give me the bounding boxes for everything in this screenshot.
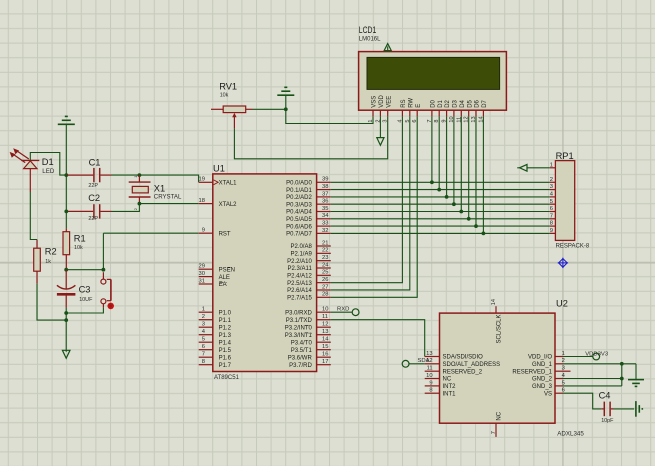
svg-text:P2.6/A14: P2.6/A14 xyxy=(287,288,312,294)
svg-text:RW: RW xyxy=(408,98,414,108)
svg-text:RP1: RP1 xyxy=(556,151,574,161)
wire U1 P0.4 to RP1 pin 6 xyxy=(331,211,550,213)
svg-text:34: 34 xyxy=(322,213,329,219)
svg-text:P1.6: P1.6 xyxy=(219,355,232,361)
svg-text:LED: LED xyxy=(42,168,55,175)
svg-text:15: 15 xyxy=(322,344,328,350)
svg-text:RV1: RV1 xyxy=(219,81,237,91)
wire VCC column from ground to D1/C1 node xyxy=(65,125,67,175)
potentiometer RV1 10k xyxy=(211,81,253,128)
svg-text:GND_2: GND_2 xyxy=(532,377,553,383)
LCD LCD1 LM016L xyxy=(359,25,507,110)
wire LCD D0 down to P0.0 row xyxy=(431,117,433,183)
svg-text:26: 26 xyxy=(322,277,328,283)
junction D5/P0.5 xyxy=(467,217,471,221)
svg-text:35: 35 xyxy=(322,206,328,212)
svg-text:16: 16 xyxy=(322,352,328,358)
U2 left pin numbers xyxy=(426,351,432,394)
svg-text:C2: C2 xyxy=(88,193,100,203)
ground symbol (rotated) right of C4 xyxy=(636,401,642,417)
svg-text:30: 30 xyxy=(199,271,205,277)
wire LCD D6 down to P0.6 row xyxy=(475,117,477,227)
svg-text:P0.1/AD1: P0.1/AD1 xyxy=(286,188,312,194)
svg-text:36: 36 xyxy=(322,199,328,205)
svg-text:RESERVED_1: RESERVED_1 xyxy=(512,369,552,375)
wire U2 GND_1 to ground xyxy=(563,364,636,380)
input arrow terminal on RP1 pin 1 xyxy=(517,164,550,171)
svg-text:SDO/ALT_ADDRESS: SDO/ALT_ADDRESS xyxy=(443,362,501,368)
junction D4/P0.4 xyxy=(459,210,463,214)
svg-text:EA: EA xyxy=(219,282,227,288)
wire R2 bottom to ground column xyxy=(37,284,66,321)
svg-text:5: 5 xyxy=(202,337,205,343)
svg-text:ALE: ALE xyxy=(219,275,230,281)
svg-text:P0.7/AD7: P0.7/AD7 xyxy=(286,232,312,238)
svg-text:P1.4: P1.4 xyxy=(219,340,232,346)
svg-text:VDD_I/O: VDD_I/O xyxy=(528,355,552,361)
wire LCD D3 down to P0.3 row xyxy=(453,117,455,205)
svg-text:P1.1: P1.1 xyxy=(219,318,232,324)
svg-text:VDD: VDD xyxy=(379,94,385,107)
push button (reset) xyxy=(101,272,111,307)
RP1 pin numbers 1-9 xyxy=(550,162,554,234)
svg-text:D4: D4 xyxy=(460,99,466,107)
junction D0/P0.0 xyxy=(430,180,434,184)
junction D3/P0.3 xyxy=(452,202,456,206)
junction C2 left on VCC column xyxy=(64,210,68,214)
svg-text:P1.7: P1.7 xyxy=(219,363,232,369)
svg-text:25: 25 xyxy=(322,270,328,276)
svg-text:P2.3/A11: P2.3/A11 xyxy=(288,266,313,272)
svg-text:P3.4/T0: P3.4/T0 xyxy=(291,340,313,346)
svg-text:XTAL2: XTAL2 xyxy=(219,202,238,208)
ground (inverted) top-left xyxy=(58,116,75,124)
svg-text:E: E xyxy=(416,104,422,108)
svg-text:39: 39 xyxy=(322,177,328,183)
svg-text:D1: D1 xyxy=(42,157,54,167)
svg-text:11: 11 xyxy=(427,366,433,372)
svg-text:9: 9 xyxy=(202,228,205,234)
U1 right pin labels xyxy=(285,181,313,369)
svg-text:RS: RS xyxy=(401,99,407,107)
ground symbol right of U2 xyxy=(628,380,644,387)
U2 top pin 14 SCL/SCLK xyxy=(491,299,502,344)
wire U1 P0.3 to RP1 pin 5 xyxy=(331,203,550,205)
svg-text:P0.4/AD4: P0.4/AD4 xyxy=(286,210,312,216)
terminal RXD on U1 P3.0 xyxy=(331,306,359,315)
capacitor C4 10pF xyxy=(599,391,615,424)
wire C2 right to X1 bottom node xyxy=(112,204,140,211)
svg-text:P3.7/RD: P3.7/RD xyxy=(289,363,312,369)
wire U1 P0.7 to RP1 pin 9 xyxy=(331,232,550,234)
wire LCD D5 down to P0.5 row xyxy=(468,117,470,219)
svg-text:LCD1: LCD1 xyxy=(359,25,377,35)
svg-text:10UF: 10UF xyxy=(79,297,93,303)
terminal VDD3V3 on U2 pin 1 xyxy=(563,351,609,360)
svg-text:ADXL345: ADXL345 xyxy=(557,430,584,437)
RP1 pin stubs xyxy=(550,168,556,234)
svg-text:RST: RST xyxy=(219,231,231,237)
crystal X1 xyxy=(129,175,182,211)
svg-text:R2: R2 xyxy=(45,247,57,257)
ground arrow bottom-left xyxy=(62,350,70,358)
svg-text:VS: VS xyxy=(544,391,552,397)
resistor R1 10k xyxy=(63,229,86,270)
LCD pin numbers 1-14 xyxy=(368,116,484,122)
node A junction (D1/C1/VCC column) xyxy=(64,173,68,177)
wire LCD D2 down to P0.2 row xyxy=(446,117,448,197)
wire D1 anode down to R2 xyxy=(30,192,37,240)
junction X1 bottom xyxy=(138,202,142,206)
wire U1 P0.1 to RP1 pin 3 xyxy=(331,189,550,191)
wire button bottom to ground column xyxy=(66,308,103,313)
svg-text:31: 31 xyxy=(199,278,205,284)
wire VCC column (node A to R1) xyxy=(65,175,67,229)
svg-text:P2.2/A10: P2.2/A10 xyxy=(287,259,312,265)
svg-text:P0.3/AD3: P0.3/AD3 xyxy=(286,202,312,208)
svg-text:1: 1 xyxy=(202,307,205,313)
svg-text:P1.3: P1.3 xyxy=(219,333,232,339)
IC U1 AT89C51 body xyxy=(213,163,317,381)
svg-text:5: 5 xyxy=(550,199,553,205)
svg-text:8: 8 xyxy=(429,388,432,394)
resistor pack RP1 RESPACK-8 xyxy=(555,151,589,250)
wire RST to U1 pin 9 xyxy=(103,232,198,234)
svg-text:7: 7 xyxy=(491,431,497,434)
wire LCD RS to U1 P2.5 xyxy=(331,117,403,283)
svg-text:PSEN: PSEN xyxy=(219,267,235,273)
svg-text:U2: U2 xyxy=(556,298,568,308)
svg-text:6: 6 xyxy=(202,344,205,350)
svg-text:NC: NC xyxy=(443,377,452,383)
wire U1 P0.2 to RP1 pin 4 xyxy=(331,196,550,198)
svg-text:17: 17 xyxy=(322,359,328,365)
svg-text:RESERVED_2: RESERVED_2 xyxy=(443,369,483,375)
svg-text:P0.6/AD6: P0.6/AD6 xyxy=(286,224,312,230)
svg-text:3: 3 xyxy=(383,119,389,122)
svg-text:D5: D5 xyxy=(467,99,473,107)
svg-text:22P: 22P xyxy=(88,183,98,189)
svg-text:2: 2 xyxy=(550,177,553,183)
svg-text:P2.1/A9: P2.1/A9 xyxy=(290,252,312,258)
svg-text:10k: 10k xyxy=(220,93,229,99)
capacitor C1 22P xyxy=(67,158,112,190)
svg-text:P1.5: P1.5 xyxy=(219,348,232,354)
svg-text:P1.0: P1.0 xyxy=(219,310,232,316)
svg-text:32: 32 xyxy=(322,228,328,234)
svg-text:3: 3 xyxy=(202,322,205,328)
svg-text:P1.2: P1.2 xyxy=(219,325,232,331)
svg-text:P2.4/A12: P2.4/A12 xyxy=(287,274,312,280)
svg-text:VDD3V3: VDD3V3 xyxy=(585,351,609,357)
svg-text:D1: D1 xyxy=(438,99,444,107)
capacitor C2 22P xyxy=(67,193,112,222)
junction RV1/ground/VSS xyxy=(284,107,288,111)
svg-text:P3.5/T1: P3.5/T1 xyxy=(291,348,313,354)
svg-text:23: 23 xyxy=(322,255,328,261)
button red actuator dot xyxy=(107,303,114,310)
svg-text:29: 29 xyxy=(199,264,205,270)
svg-text:38: 38 xyxy=(322,184,328,190)
svg-text:VSS: VSS xyxy=(372,96,378,108)
U2 bottom pin 7 xyxy=(491,411,502,437)
svg-text:7: 7 xyxy=(202,352,205,358)
svg-text:P3.2/INT0: P3.2/INT0 xyxy=(285,325,313,331)
svg-text:6: 6 xyxy=(550,206,553,212)
svg-text:NC: NC xyxy=(496,411,502,420)
U2 right pin numbers xyxy=(562,351,566,394)
svg-text:D6: D6 xyxy=(475,99,481,107)
svg-text:D0: D0 xyxy=(431,99,437,107)
svg-text:10: 10 xyxy=(426,373,432,379)
wire U1 P0.5 to RP1 pin 7 xyxy=(331,218,550,220)
svg-text:9: 9 xyxy=(550,228,553,234)
svg-text:U1: U1 xyxy=(213,163,225,173)
svg-text:1k: 1k xyxy=(45,259,51,265)
svg-text:CRYSTAL: CRYSTAL xyxy=(154,193,182,200)
svg-text:2: 2 xyxy=(202,314,205,320)
svg-text:LM016L: LM016L xyxy=(359,36,381,42)
svg-text:21: 21 xyxy=(322,240,328,246)
svg-text:P3.0/RXD: P3.0/RXD xyxy=(285,310,312,316)
svg-text:11: 11 xyxy=(322,314,328,320)
svg-text:33: 33 xyxy=(322,221,328,227)
wire RST column xyxy=(102,233,104,270)
wire U2 GND_2 xyxy=(563,378,622,380)
wire U1 P0.0 to RP1 pin 2 xyxy=(331,181,550,183)
svg-text:D2: D2 xyxy=(445,99,451,107)
wire RV1 right to ground node xyxy=(253,108,286,110)
wire ground node to LCD VSS xyxy=(286,109,373,123)
svg-text:P2.0/A8: P2.0/A8 xyxy=(290,244,312,250)
U2 right pin labels xyxy=(512,355,552,398)
junction R2 bottom node xyxy=(64,318,68,322)
svg-text:SCL/SCLK: SCL/SCLK xyxy=(496,314,502,343)
junction D1/P0.1 xyxy=(437,188,441,192)
terminal SDA on U2 pin 12 xyxy=(402,358,429,367)
svg-text:P3.1/TXD: P3.1/TXD xyxy=(286,318,313,324)
svg-text:C1: C1 xyxy=(89,158,101,168)
wire C3 bottom / ground column down xyxy=(65,308,67,352)
diode D1 (LED) xyxy=(10,148,55,192)
U2 left pin labels xyxy=(443,355,501,398)
svg-text:10: 10 xyxy=(322,307,328,313)
svg-text:RESPACK-8: RESPACK-8 xyxy=(556,243,590,249)
svg-text:9: 9 xyxy=(429,380,432,386)
power arrow terminal above LCD xyxy=(384,44,391,52)
svg-text:C3: C3 xyxy=(79,285,91,295)
svg-text:SDA/SDI/SDIO: SDA/SDI/SDIO xyxy=(443,355,484,361)
svg-text:D3: D3 xyxy=(453,99,459,107)
svg-text:8: 8 xyxy=(202,359,205,365)
wire U1 P3.1/TXD to U2 pin13 xyxy=(331,320,425,357)
wire LCD RW to U1 P2.6 xyxy=(331,117,410,290)
svg-text:R1: R1 xyxy=(74,234,86,244)
svg-text:12: 12 xyxy=(322,322,328,328)
wire C4 to side ground xyxy=(614,408,635,410)
svg-text:10k: 10k xyxy=(74,245,83,251)
junction R1 bottom / RST node xyxy=(64,268,105,272)
wire LCD E to U1 P2.7 xyxy=(331,117,417,298)
svg-text:SDA: SDA xyxy=(418,358,430,364)
junction D7/P0.7 xyxy=(482,232,486,236)
U2 right pin stubs xyxy=(555,357,571,394)
LCD pin stubs xyxy=(373,110,483,116)
IC U2 ADXL345 body xyxy=(440,298,585,437)
svg-text:INT2: INT2 xyxy=(443,384,457,390)
svg-text:X1: X1 xyxy=(154,183,165,193)
wire LCD D1 down to P0.1 row xyxy=(438,117,440,190)
sheet origin marker xyxy=(558,258,568,268)
svg-text:C4: C4 xyxy=(599,391,611,401)
junction GND_1 column xyxy=(620,362,624,381)
wire R1 bottom to button column xyxy=(66,269,103,271)
svg-text:37: 37 xyxy=(322,191,328,197)
svg-text:10pF: 10pF xyxy=(601,418,614,424)
junction X1 top xyxy=(138,173,142,177)
power-down arrow terminal under LCD VDD pin 2 xyxy=(377,117,384,146)
wire U2 VS to C4 xyxy=(563,393,601,409)
svg-text:18: 18 xyxy=(199,198,205,204)
svg-text:1: 1 xyxy=(550,162,553,168)
svg-text:14: 14 xyxy=(491,299,497,305)
svg-text:P3.3/INT1: P3.3/INT1 xyxy=(285,333,313,339)
capacitor C3 10UF xyxy=(57,270,93,308)
svg-text:3: 3 xyxy=(550,184,553,190)
svg-text:19: 19 xyxy=(199,177,205,183)
svg-text:P0.0/AD0: P0.0/AD0 xyxy=(286,181,312,187)
resistor R2 1k xyxy=(34,240,57,284)
svg-text:XTAL1: XTAL1 xyxy=(219,181,238,187)
svg-text:P0.2/AD2: P0.2/AD2 xyxy=(286,195,312,201)
svg-text:INT1: INT1 xyxy=(443,391,457,397)
junction D2/P0.2 xyxy=(445,195,449,199)
wire D1 cathode to node A xyxy=(30,153,66,176)
svg-text:22: 22 xyxy=(322,248,328,254)
svg-text:P3.6/WR: P3.6/WR xyxy=(288,355,313,361)
svg-text:28: 28 xyxy=(322,292,328,298)
ground (inverted) above RV1 node xyxy=(277,87,294,109)
svg-text:GND_3: GND_3 xyxy=(532,384,553,390)
svg-text:14: 14 xyxy=(322,337,329,343)
U1 left pin stubs xyxy=(199,182,213,364)
svg-text:1: 1 xyxy=(368,119,374,122)
svg-text:P2.7/A15: P2.7/A15 xyxy=(287,296,312,302)
svg-text:8: 8 xyxy=(550,221,553,227)
wire X1 bottom / C2 to XTAL2 xyxy=(139,203,198,205)
svg-text:GND_1: GND_1 xyxy=(532,362,553,368)
svg-text:24: 24 xyxy=(322,262,329,268)
svg-text:22P: 22P xyxy=(88,216,98,222)
svg-text:D7: D7 xyxy=(482,99,488,107)
svg-text:13: 13 xyxy=(426,351,432,357)
U1 right pin stubs xyxy=(317,182,331,364)
svg-text:7: 7 xyxy=(550,213,553,219)
wire C1 to XTAL1 xyxy=(112,175,199,182)
svg-text:VEE: VEE xyxy=(386,96,392,108)
U1 left pin labels xyxy=(219,181,238,369)
svg-text:AT89C51: AT89C51 xyxy=(214,375,240,381)
wire RV1 wiper to LCD VEE xyxy=(234,117,387,159)
svg-text:27: 27 xyxy=(322,284,328,290)
wire LCD D4 down to P0.4 row xyxy=(460,117,462,212)
wire U1 P0.6 to RP1 pin 8 xyxy=(331,225,550,227)
junction C3 bottom node xyxy=(64,311,68,315)
svg-text:13: 13 xyxy=(322,329,328,335)
wire U2 GND_3 xyxy=(563,364,622,386)
U1 right pin numbers xyxy=(322,177,329,365)
svg-text:P2.5/A13: P2.5/A13 xyxy=(287,281,312,287)
svg-text:RXD: RXD xyxy=(337,306,349,312)
wire LCD D7 down to P0.7 row xyxy=(482,117,484,234)
U1 left pin numbers xyxy=(199,177,206,365)
svg-text:P0.5/AD5: P0.5/AD5 xyxy=(286,217,312,223)
svg-text:3: 3 xyxy=(562,366,565,372)
junction D6/P0.6 xyxy=(474,224,478,228)
U2 left pin stubs xyxy=(425,357,440,394)
